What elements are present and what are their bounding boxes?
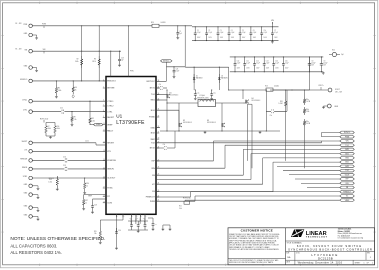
svg-text:C7: C7 — [274, 30, 276, 32]
svg-text:R12: R12 — [91, 118, 94, 120]
svg-text:R3: R3 — [94, 59, 96, 61]
svg-text:BSC059N04LS: BSC059N04LS — [207, 122, 216, 124]
svg-text:2.2µF: 2.2µF — [231, 32, 235, 34]
svg-text:1.05k: 1.05k — [48, 181, 52, 183]
svg-text:C19: C19 — [94, 205, 97, 207]
svg-text:R15: R15 — [94, 231, 97, 233]
svg-text:VOUT: VOUT — [345, 174, 350, 176]
svg-text:2.2µF: 2.2µF — [253, 32, 257, 34]
svg-text:C1: C1 — [179, 31, 181, 33]
svg-text:L1 10µH: L1 10µH — [199, 95, 205, 97]
svg-text:100µF: 100µF — [312, 62, 316, 64]
svg-text:R9: R9 — [74, 117, 76, 119]
svg-text:PWM: PWM — [345, 136, 350, 138]
svg-text:31: 31 — [158, 132, 160, 134]
svg-text:2.2µF: 2.2µF — [275, 62, 279, 64]
svg-text:C13: C13 — [266, 60, 269, 62]
svg-text:ISMON: ISMON — [22, 167, 28, 169]
svg-text:ISN: ISN — [151, 168, 155, 170]
svg-text:1: 1 — [372, 262, 373, 264]
svg-text:CTRL: CTRL — [23, 110, 27, 112]
svg-text:INTVCC: INTVCC — [49, 178, 56, 180]
svg-text:100V: 100V — [231, 37, 234, 39]
svg-text:FAULT: FAULT — [107, 130, 114, 133]
svg-text:100V: 100V — [220, 37, 223, 39]
svg-text:243k: 243k — [306, 111, 309, 113]
svg-text:C11: C11 — [246, 60, 249, 62]
svg-text:C28: C28 — [121, 58, 124, 60]
svg-text:4.7µF: 4.7µF — [264, 32, 268, 34]
svg-text:R23: R23 — [265, 86, 268, 88]
svg-text:60VIN, 60VOUT FOUR SWITCH: 60VIN, 60VOUT FOUR SWITCH — [297, 244, 362, 248]
svg-text:R18: R18 — [280, 101, 283, 103]
svg-text:CUSTOMER NOTICE: CUSTOMER NOTICE — [241, 229, 273, 233]
svg-text:100V: 100V — [253, 37, 256, 39]
svg-text:SW1: SW1 — [345, 149, 349, 151]
svg-text:100V: 100V — [208, 37, 211, 39]
svg-text:C10: C10 — [237, 60, 240, 62]
svg-text:M2: M2 — [183, 120, 185, 122]
svg-text:19: 19 — [103, 201, 105, 203]
svg-text:2k: 2k — [86, 185, 88, 187]
svg-text:D1: D1 — [196, 76, 198, 78]
svg-text:C9: C9 — [324, 60, 326, 62]
svg-text:100V: 100V — [246, 68, 249, 70]
svg-text:88.7k: 88.7k — [92, 61, 96, 63]
svg-text:TECHNOLOGY: TECHNOLOGY — [306, 237, 328, 239]
svg-text:100V: 100V — [274, 37, 277, 39]
svg-text:C3b: C3b — [163, 144, 166, 146]
svg-text:2k: 2k — [75, 89, 77, 91]
svg-text:VOUT: VOUT — [335, 89, 340, 91]
svg-text:CLKOUT: CLKOUT — [107, 178, 116, 180]
svg-text:BSTVCC: BSTVCC — [147, 81, 156, 83]
svg-text:100k: 100k — [57, 128, 60, 130]
svg-text:INTVCC: INTVCC — [344, 132, 351, 134]
svg-text:BSC059N04LS: BSC059N04LS — [183, 122, 192, 124]
svg-text:8V – 58V: 8V – 58V — [15, 49, 21, 51]
svg-text:100k: 100k — [58, 90, 62, 92]
svg-text:4.7µF: 4.7µF — [274, 32, 278, 34]
svg-text:VREF: VREF — [345, 200, 350, 202]
svg-text:2.2µF: 2.2µF — [256, 62, 260, 64]
svg-text:IC NO.: IC NO. — [296, 253, 301, 255]
svg-text:C14: C14 — [118, 230, 121, 232]
svg-text:SER2918H-103KL: SER2918H-103KL — [197, 97, 209, 99]
svg-text:E10: E10 — [332, 50, 335, 52]
svg-text:2.2µF: 2.2µF — [266, 62, 270, 64]
svg-text:LT3790EFE: LT3790EFE — [116, 120, 145, 126]
svg-text:ISMON: ISMON — [107, 169, 114, 171]
svg-text:Fax: (408)434-0507: Fax: (408)434-0507 — [338, 235, 350, 237]
svg-text:SHORT: SHORT — [22, 141, 28, 143]
svg-text:C25: C25 — [285, 60, 288, 62]
svg-text:HOT/COLD: HOT/COLD — [40, 118, 49, 120]
svg-text:24V – 34V: 24V – 34V — [335, 92, 342, 94]
svg-text:PWM: PWM — [150, 201, 155, 203]
svg-text:2.2µF: 2.2µF — [242, 32, 246, 34]
svg-text:12.1k: 12.1k — [85, 141, 89, 143]
svg-text:CTRL: CTRL — [107, 111, 113, 113]
svg-text:TG1: TG1 — [345, 145, 348, 147]
svg-text:C22: C22 — [143, 218, 146, 220]
svg-text:PVIN: PVIN — [130, 71, 134, 73]
svg-text:C24: C24 — [275, 60, 278, 62]
svg-text:C15: C15 — [60, 107, 63, 109]
svg-text:C1a: C1a — [197, 92, 200, 94]
svg-text:C4: C4 — [231, 30, 233, 32]
svg-text:PWMOUT: PWMOUT — [146, 197, 156, 199]
svg-text:2.2µF: 2.2µF — [285, 62, 289, 64]
svg-text:100µF: 100µF — [324, 62, 328, 64]
svg-text:SYNC: SYNC — [107, 188, 113, 190]
svg-text:M3: M3 — [207, 120, 209, 122]
svg-text:BSC059N04LS: BSC059N04LS — [170, 95, 179, 97]
svg-text:C3: C3 — [220, 30, 222, 32]
svg-text:C5: C5 — [242, 30, 244, 32]
svg-text:2.2µF: 2.2µF — [208, 32, 212, 34]
svg-text:GND: GND — [150, 127, 155, 129]
svg-text:M4: M4 — [252, 98, 254, 100]
svg-text:100V: 100V — [256, 68, 259, 70]
svg-text:10: 10 — [103, 123, 105, 125]
svg-text:C16: C16 — [63, 157, 66, 159]
svg-text:100k: 100k — [48, 128, 51, 130]
svg-text:2.2µF: 2.2µF — [197, 32, 201, 34]
svg-text:2.0k: 2.0k — [179, 208, 182, 210]
svg-text:C26: C26 — [176, 69, 179, 71]
svg-text:C9a: C9a — [270, 115, 273, 117]
svg-text:BSC059N04LS: BSC059N04LS — [252, 100, 261, 102]
svg-text:2.05k: 2.05k — [91, 120, 95, 122]
svg-text:R10: R10 — [57, 126, 60, 128]
svg-text:100V: 100V — [264, 37, 267, 39]
svg-text:2.0k: 2.0k — [74, 119, 77, 121]
svg-text:100V: 100V — [285, 68, 288, 70]
svg-text:SYNCHRONOUS BUCK-BOOST CONTROL: SYNCHRONOUS BUCK-BOOST CONTROLLER — [288, 248, 373, 252]
svg-text:PGND: PGND — [149, 117, 155, 119]
svg-text:C2a: C2a — [213, 92, 216, 94]
svg-text:EN/UVLO: EN/UVLO — [20, 79, 28, 81]
svg-text:10k: 10k — [94, 233, 97, 235]
svg-text:CTRL1: CTRL1 — [22, 99, 27, 101]
svg-text:VREF: VREF — [88, 196, 92, 198]
svg-text:R6: R6 — [75, 87, 77, 89]
svg-text:SHEET: SHEET — [355, 262, 361, 264]
svg-text:C2: C2 — [208, 30, 210, 32]
svg-text:INTVEE: INTVEE — [107, 88, 115, 90]
svg-text:SIZE: SIZE — [286, 253, 289, 255]
svg-text:SHORT: SHORT — [107, 142, 115, 144]
svg-text:2µF: 2µF — [341, 54, 344, 56]
svg-text:30: 30 — [158, 138, 160, 140]
svg-text:33: 33 — [158, 116, 160, 118]
svg-text:100V: 100V — [266, 68, 269, 70]
svg-text:EN/UVLO: EN/UVLO — [107, 81, 116, 83]
svg-text:ALL RESISTORS 0402 1%.: ALL RESISTORS 0402 1%. — [10, 250, 61, 255]
svg-text:2k: 2k — [85, 202, 87, 204]
svg-text:R6a: R6a — [306, 121, 309, 123]
svg-text:ALL CAPACITORS 0603.: ALL CAPACITORS 0603. — [10, 243, 57, 248]
svg-text:BST1: BST1 — [150, 88, 156, 90]
svg-text:CTRL1: CTRL1 — [107, 101, 114, 103]
svg-text:50V: 50V — [312, 65, 315, 67]
svg-text:SHORT: SHORT — [107, 117, 115, 119]
svg-text:U1: U1 — [116, 114, 122, 119]
svg-text:100V: 100V — [275, 68, 278, 70]
svg-text:VOUT+: VOUT+ — [318, 85, 323, 87]
svg-text:NOTE: UNLESS OTHERWISE SPECIF: NOTE: UNLESS OTHERWISE SPECIFIED. — [10, 236, 105, 242]
svg-text:COM: COM — [107, 202, 112, 204]
svg-text:R17: R17 — [85, 200, 88, 202]
svg-text:340k: 340k — [75, 61, 79, 63]
svg-text:50V: 50V — [324, 65, 327, 67]
svg-text:R4a: R4a — [306, 99, 309, 101]
svg-text:VREF: VREF — [96, 124, 101, 126]
svg-text:R14: R14 — [86, 183, 89, 185]
svg-text:PWMOUT: PWMOUT — [343, 191, 351, 193]
svg-text:C21: C21 — [136, 218, 139, 220]
svg-text:R11: R11 — [179, 206, 182, 208]
svg-text:8V – 58V: 8V – 58V — [15, 23, 21, 25]
svg-text:C12: C12 — [256, 60, 259, 62]
svg-text:1: 1 — [364, 262, 365, 264]
svg-text:2.2µF: 2.2µF — [246, 62, 250, 64]
svg-text:SW2: SW2 — [345, 166, 349, 168]
svg-text:R4b: R4b — [306, 109, 309, 111]
svg-text:1µF: 1µF — [179, 33, 182, 35]
svg-text:C8: C8 — [312, 60, 314, 62]
svg-text:TG2: TG2 — [345, 170, 348, 172]
svg-text:Phone: (408)432-1900 www.line: Phone: (408)432-1900 www.linear.com — [338, 233, 363, 235]
svg-text:HOT/COLD: HOT/COLD — [183, 197, 192, 199]
svg-text:C7a: C7a — [264, 30, 267, 32]
svg-text:R5: R5 — [58, 88, 60, 90]
svg-text:OF: OF — [367, 262, 369, 264]
svg-text:C1: C1 — [197, 30, 199, 32]
svg-text:BG1: BG1 — [345, 153, 348, 155]
svg-text:100V: 100V — [242, 37, 245, 39]
svg-text:100V: 100V — [197, 37, 200, 39]
svg-text:C2b: C2b — [159, 84, 162, 86]
svg-text:17: 17 — [103, 187, 105, 189]
svg-text:R24: R24 — [151, 22, 154, 24]
svg-text:HYMODE: HYMODE — [20, 159, 27, 161]
svg-text:BST2: BST2 — [150, 148, 156, 150]
svg-text:HYMODE: HYMODE — [107, 160, 116, 162]
svg-text:DC2123B: DC2123B — [318, 256, 333, 260]
svg-text:2.2µF: 2.2µF — [237, 62, 241, 64]
svg-text:D2: D2 — [221, 76, 223, 78]
svg-text:C20: C20 — [129, 218, 132, 220]
svg-text:4.7µF: 4.7µF — [176, 71, 180, 73]
svg-text:1µF: 1µF — [121, 60, 124, 62]
svg-text:TITLE: SCHEMATIC: TITLE: SCHEMATIC — [287, 241, 303, 244]
svg-text:R7: R7 — [48, 126, 50, 128]
svg-text:LTS: LTS — [24, 149, 27, 151]
svg-text:Wednesday, December 14, 2016: Wednesday, December 14, 2016 — [298, 261, 343, 265]
svg-text:R2: R2 — [77, 59, 79, 61]
svg-text:C23: C23 — [155, 224, 158, 226]
svg-text:12: 12 — [103, 141, 105, 143]
svg-text:2.2µF: 2.2µF — [220, 32, 224, 34]
svg-text:C6: C6 — [253, 30, 255, 32]
svg-text:CTRL2: CTRL2 — [107, 106, 114, 108]
svg-text:100V: 100V — [237, 68, 240, 70]
svg-text:BG2: BG2 — [345, 162, 348, 164]
svg-text:11: 11 — [103, 130, 105, 132]
svg-text:M1: M1 — [170, 93, 172, 95]
svg-text:18: 18 — [103, 195, 105, 197]
svg-text:C18: C18 — [63, 165, 66, 167]
svg-text:VREF: VREF — [107, 124, 113, 126]
